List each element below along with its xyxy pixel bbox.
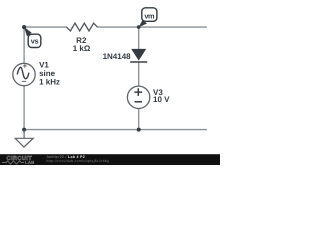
junction node bottom V3: [137, 128, 141, 132]
svg-text:vm: vm: [144, 12, 155, 21]
svg-text:vs: vs: [31, 36, 39, 45]
wire: V3 bottom to bottom rail: [138, 108, 140, 129]
diode D1 cathode bar: [130, 61, 147, 63]
footer bar: [0, 154, 220, 165]
V1 minus polarity mark: [22, 80, 26, 82]
wire: diode D1 cathode to V3 top: [138, 62, 140, 86]
node flag vm pointer: [139, 20, 147, 28]
voltage source V3 (DC): [127, 86, 149, 108]
svg-text:10 V: 10 V: [153, 95, 170, 104]
diode D1: [131, 49, 146, 61]
svg-text:LAB: LAB: [25, 160, 35, 165]
ground: [23, 130, 25, 139]
svg-text:1 kΩ: 1 kΩ: [73, 44, 91, 53]
voltage source V1 (sine): [13, 63, 35, 85]
svg-text:1 kHz: 1 kHz: [39, 77, 60, 86]
V1 sine waveform: [17, 67, 29, 78]
wire top left: node vs to resistor R2: [24, 26, 67, 28]
footer CircuitLab logo zigzag: [2, 161, 24, 164]
svg-text:1N4148: 1N4148: [103, 52, 132, 61]
wire left vertical: V1 bottom to ground rail: [23, 86, 25, 130]
node flag vs pointer: [24, 27, 32, 36]
svg-text:http://circuitlab.com/c2qhaj51: http://circuitlab.com/c2qhaj512r6bg: [47, 159, 110, 163]
V3 minus mark: [135, 101, 143, 103]
junction node vm: [137, 25, 141, 29]
node flag vs: [28, 34, 41, 47]
wire top right: resistor R2 to right edge: [97, 26, 207, 28]
wire left vertical: node vs to V1 top: [23, 27, 25, 64]
V1 plus polarity mark: [23, 64, 27, 68]
wire bottom rail: [24, 129, 207, 131]
junction node top-left: [22, 25, 26, 29]
junction node bottom-left: [22, 128, 26, 132]
node flag vm: [142, 8, 157, 21]
resistor R2: [67, 23, 98, 31]
V3 plus mark: [135, 88, 143, 96]
wire: node vm down to diode D1 anode: [138, 27, 140, 49]
